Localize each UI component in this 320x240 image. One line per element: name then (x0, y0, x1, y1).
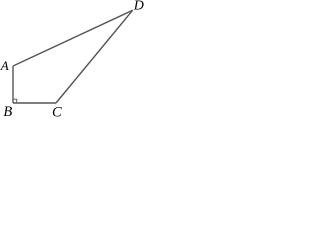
right angle marker at B (13, 99, 17, 103)
svg-text:A: A (0, 58, 9, 73)
side CD (56, 10, 133, 103)
svg-text:B: B (3, 104, 12, 119)
svg-text:C: C (52, 105, 62, 120)
side AD (13, 10, 133, 66)
side AB (12, 66, 14, 103)
wire: quadrilateral outline (13, 10, 133, 103)
svg-text:D: D (133, 0, 144, 14)
side BC (13, 102, 56, 104)
